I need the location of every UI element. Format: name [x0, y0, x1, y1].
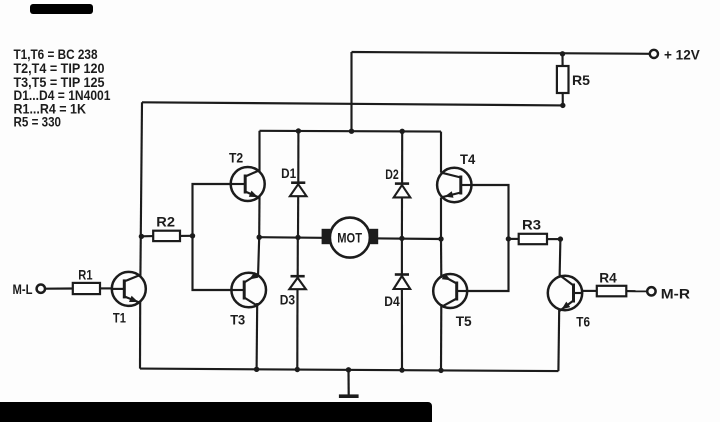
wire T1 collector rail: [140, 102, 142, 276]
svg-text:R2: R2: [156, 214, 175, 230]
wire R4 left lead: [582, 290, 597, 292]
node T4-T5 motor junction: [438, 236, 443, 241]
node D2 top junction: [400, 129, 405, 134]
resistor R1: [73, 283, 100, 294]
wire ground rail: [140, 369, 558, 372]
node T3 bottom junction: [254, 367, 259, 372]
node R3 left junction: [506, 236, 511, 241]
svg-text:R5: R5: [572, 72, 590, 88]
wire collector link horizontal: [142, 102, 563, 105]
svg-text:R5 = 330: R5 = 330: [14, 114, 62, 130]
svg-text:MOT: MOT: [337, 231, 362, 246]
wire M-L lead: [45, 287, 73, 289]
wire R5 bottom lead: [562, 93, 564, 105]
wire R4 right lead: [626, 290, 647, 292]
wire T2 emitter: [258, 197, 260, 238]
svg-text:D4: D4: [384, 293, 400, 309]
node ground junction: [346, 367, 351, 372]
transistor T5: [433, 274, 467, 308]
diode D3: [291, 275, 305, 278]
node R2 right junction: [190, 233, 195, 238]
svg-text:T3: T3: [230, 312, 245, 328]
wire D3 upper lead: [297, 237, 299, 276]
svg-text:D3: D3: [280, 291, 296, 307]
transistor T4: [437, 168, 471, 202]
node R5 top junction: [560, 51, 565, 56]
resistor R2: [153, 231, 180, 241]
resistor R4: [597, 286, 627, 297]
wire D1 upper lead: [297, 131, 299, 183]
wire T6 emitter: [557, 309, 560, 371]
node feed-bridge junction: [349, 129, 354, 134]
transistor T1: [112, 272, 146, 306]
wire R3 right lead: [547, 238, 560, 240]
node T5 bottom junction: [438, 368, 443, 373]
svg-text:M-R: M-R: [661, 285, 690, 301]
diode D2: [395, 182, 409, 185]
wire T4 collector: [440, 132, 442, 173]
wire D2 upper lead: [401, 131, 403, 183]
wire D4 lower lead: [401, 289, 403, 370]
svg-text:D1: D1: [281, 165, 296, 181]
wire R3 left lead: [508, 238, 518, 240]
wire +12V rail: [352, 52, 651, 54]
transistor T2: [231, 167, 265, 201]
wire motor rail: [259, 237, 441, 239]
wire D1 lower lead: [297, 196, 299, 237]
svg-text:R3: R3: [522, 217, 541, 233]
wire T1 emitter: [139, 302, 141, 369]
motor left brush: [322, 229, 331, 244]
resistor R5: [557, 66, 569, 93]
scan artifact top-left: [30, 4, 93, 14]
wire R1 right lead: [100, 287, 112, 289]
motor right brush: [370, 229, 379, 244]
ground symbol: [347, 370, 349, 395]
svg-text:T1: T1: [113, 310, 126, 326]
node D3 bottom junction: [295, 367, 300, 372]
wire T2-T3 base tie: [193, 184, 232, 290]
node R2 left junction: [139, 234, 144, 239]
svg-text:M-L: M-L: [13, 281, 33, 297]
svg-text:T4: T4: [460, 151, 475, 167]
terminal M-L: [37, 285, 45, 293]
scan artifact bottom bar: [0, 402, 432, 422]
wire D2 lower lead: [401, 197, 403, 238]
node T2-T3 motor junction: [257, 235, 262, 240]
resistor R3: [519, 234, 547, 244]
terminal M-R: [647, 287, 655, 295]
terminal +12V: [650, 50, 658, 58]
wire T5 lower lead: [440, 304, 442, 370]
wire T2 collector: [258, 131, 260, 172]
diode D4: [395, 273, 409, 276]
wire R2 left lead: [141, 235, 153, 237]
wire +12V feed vertical: [350, 52, 352, 131]
svg-text:T2: T2: [229, 149, 243, 165]
node D4 bottom junction: [399, 367, 404, 372]
wire R2 right lead: [180, 235, 193, 237]
svg-text:D2: D2: [385, 166, 399, 182]
motor MOT: [330, 218, 370, 258]
svg-text:+ 12V: + 12V: [664, 47, 700, 63]
wire T6 collector: [559, 239, 562, 277]
wire T4-T5 base tie: [467, 185, 508, 291]
diode D1: [291, 181, 305, 184]
svg-text:R1: R1: [78, 267, 92, 283]
node D1-D3 motor junction: [295, 235, 300, 240]
svg-text:T6: T6: [576, 313, 590, 329]
wire R5 top lead: [561, 54, 563, 66]
transistor T6: [548, 276, 582, 310]
node R5 bottom junction: [560, 103, 565, 108]
wire T4 emitter: [440, 198, 442, 239]
wire T3 lower lead: [256, 303, 259, 369]
svg-text:R4: R4: [599, 270, 617, 286]
wire bridge top rail: [260, 130, 442, 133]
node D1 top junction: [296, 128, 301, 133]
wire T5 upper lead: [440, 239, 442, 278]
transistor T3: [231, 273, 266, 308]
svg-text:T5: T5: [456, 313, 472, 329]
wire T3 upper lead: [258, 237, 259, 277]
wire D4 upper lead: [401, 238, 403, 274]
wire D3 lower lead: [296, 289, 298, 369]
node R3 right junction: [558, 236, 563, 241]
node D2-D4 motor junction: [399, 236, 404, 241]
